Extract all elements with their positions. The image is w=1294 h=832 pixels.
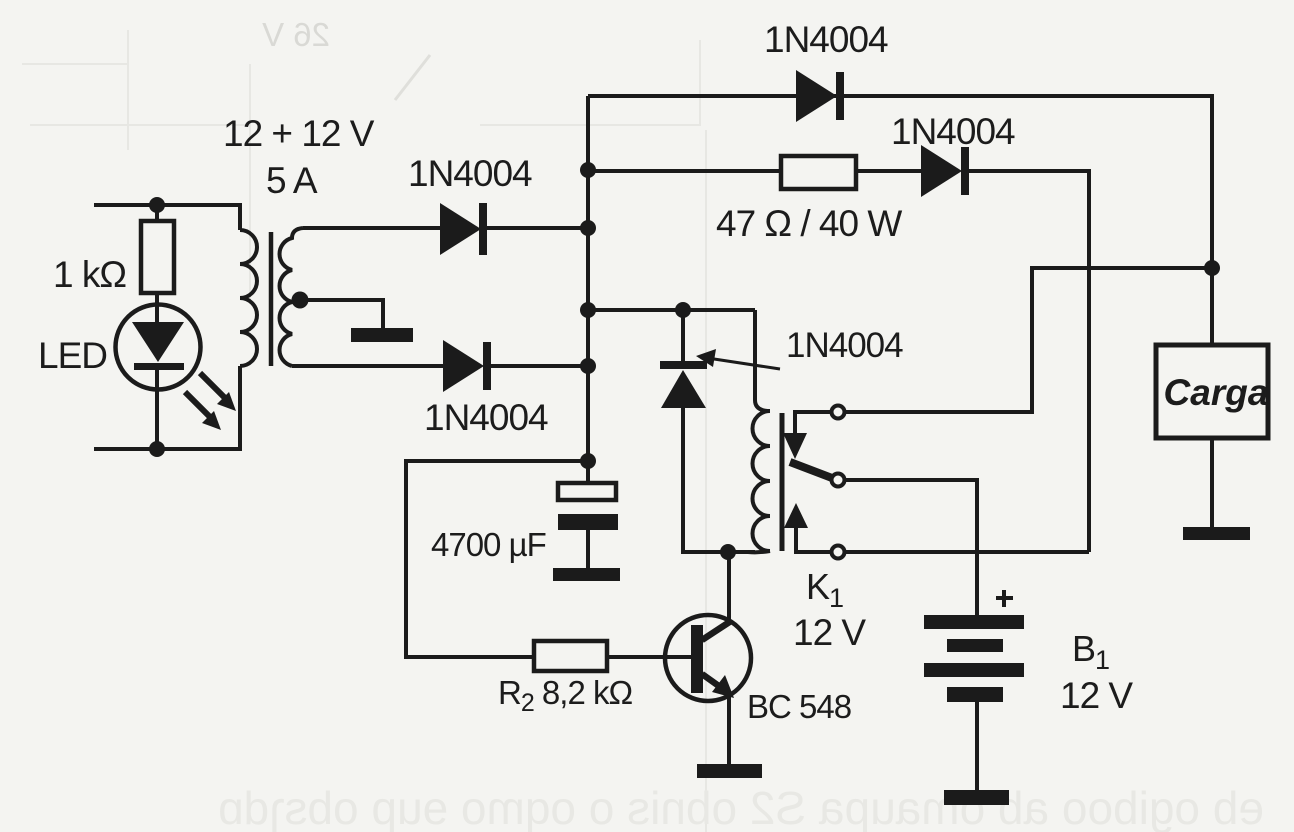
battery B1 plate 2 <box>947 639 1003 652</box>
faint diagonal scan mark <box>395 55 430 100</box>
svg-text:47 Ω / 40 W: 47 Ω / 40 W <box>716 203 902 244</box>
transformer T1 core <box>269 232 274 366</box>
label 1N4004 (D5) with leader arrow <box>696 326 903 369</box>
LED D6 <box>116 305 201 390</box>
svg-text:4700 µF: 4700 µF <box>431 526 546 563</box>
relay contact terminal middle <box>832 474 845 487</box>
svg-text:5 A: 5 A <box>266 160 318 201</box>
diode D4 1N4004 (top) <box>796 70 844 122</box>
LED emission arrows <box>185 373 236 430</box>
svg-text:Carga: Carga <box>1164 372 1269 413</box>
wire center tap <box>300 300 383 328</box>
ground (Carga) <box>1183 527 1250 540</box>
svg-text:1N4004: 1N4004 <box>891 111 1015 152</box>
node bus-relay row <box>580 302 596 318</box>
resistor R2 8,2 kΩ <box>534 641 607 671</box>
wire AC bottom lead <box>96 447 240 451</box>
svg-text:1 kΩ: 1 kΩ <box>53 254 126 295</box>
relay contact terminal bottom <box>832 546 845 559</box>
wire LED branch top <box>155 205 159 221</box>
label + <box>996 590 1013 607</box>
ground (capacitor) <box>553 568 620 581</box>
svg-text:12 V: 12 V <box>793 612 866 653</box>
battery B1 plate 3 <box>924 663 1024 677</box>
node coil bottom / collector <box>720 544 736 560</box>
wire flyback anode down <box>683 408 755 552</box>
diode D3 1N4004 <box>921 145 969 197</box>
battery B1 plate 1 <box>924 615 1024 629</box>
transformer T1 primary <box>240 205 257 449</box>
diode D5 1N4004 flyback <box>660 361 707 408</box>
svg-text:BC 548: BC 548 <box>747 688 851 725</box>
node flyback diode top <box>675 302 691 318</box>
node B (bottom of LED branch) <box>149 441 165 457</box>
svg-text:LED: LED <box>38 335 107 376</box>
diode D2 1N4004 <box>443 340 491 392</box>
relay contact terminal top <box>832 406 845 419</box>
node center tap <box>292 292 309 309</box>
resistor 1 kΩ <box>141 221 174 293</box>
svg-text:1N4004: 1N4004 <box>786 326 903 365</box>
battery B1 plate 4 <box>947 687 1003 702</box>
wire NO contact to D3 line <box>846 550 1089 554</box>
capacitor C1 bottom plate <box>558 514 618 530</box>
wire LED to bottom node <box>155 389 159 449</box>
svg-text:26 V: 26 V <box>262 16 330 53</box>
svg-text:R2 8,2 kΩ: R2 8,2 kΩ <box>498 674 632 717</box>
node bus-row1 <box>580 162 596 178</box>
node bus-R2 row <box>580 453 596 469</box>
wire resistor to LED <box>155 293 159 305</box>
wire main bus vertical <box>586 96 590 483</box>
wire common contact to battery <box>846 480 977 615</box>
wire resistor to D3 <box>856 169 921 173</box>
wire battery to ground <box>975 702 979 790</box>
relay NC contact arm with down arrow <box>783 412 830 459</box>
node bus-D2 <box>580 358 596 374</box>
wire relay feed row <box>588 308 755 312</box>
load box Carga <box>1156 345 1268 438</box>
wire AC top lead <box>96 203 240 207</box>
svg-text:12 + 12 V: 12 + 12 V <box>223 113 375 154</box>
relay armature <box>790 462 832 478</box>
svg-text:1N4004: 1N4004 <box>764 19 888 60</box>
svg-text:eb ogiboo ab omaupa S2: eb ogiboo ab omaupa S2 obnis o oqmo ɘup … <box>218 782 1264 832</box>
relay NO contact arm with up arrow <box>784 503 830 552</box>
wire D2 to bus <box>491 364 588 368</box>
wire node to flyback cathode <box>681 310 685 361</box>
transistor Q1 BC548 <box>665 615 751 701</box>
wire Carga to ground <box>1210 438 1214 527</box>
svg-text:1N4004: 1N4004 <box>424 397 548 438</box>
wire secondary bottom to diode D2 <box>292 364 443 368</box>
wire collector <box>727 552 731 619</box>
svg-text:12 V: 12 V <box>1060 675 1133 716</box>
node bus-D1 <box>580 220 596 236</box>
wire NC contact to load node <box>846 268 1212 412</box>
resistor R1 47Ω/40W <box>781 156 856 189</box>
diode D1 1N4004 <box>440 203 487 255</box>
svg-text:1N4004: 1N4004 <box>408 153 532 194</box>
wire bus to left loop <box>406 461 588 657</box>
wire emitter to ground <box>727 696 731 764</box>
ground (center tap) <box>351 328 413 342</box>
faint scan artifact box top-left <box>22 30 706 832</box>
relay K1 coil <box>748 310 770 552</box>
transformer T1 secondary <box>280 228 303 366</box>
ground (battery) <box>944 790 1009 805</box>
wire D3 to NO contact <box>969 171 1089 552</box>
wire R2 to base <box>607 655 691 659</box>
wire row2 bus to resistor <box>588 169 781 173</box>
wire secondary top to diode D1 <box>303 226 440 230</box>
wire top row <box>588 96 1212 345</box>
node load junction <box>1204 260 1220 276</box>
wire capacitor to ground <box>586 530 590 568</box>
capacitor C1 4700 µF top plate <box>558 483 616 500</box>
node A (top of LED branch) <box>149 197 165 213</box>
relay K1 core <box>780 413 785 551</box>
wire D1 to bus <box>487 226 588 230</box>
ground (emitter) <box>697 764 762 778</box>
